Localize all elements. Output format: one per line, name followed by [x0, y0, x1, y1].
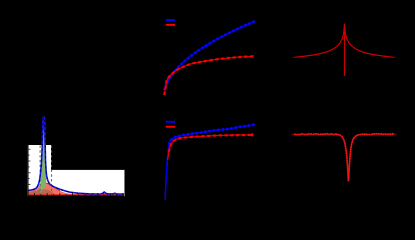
- blue peak apex blob: [42, 117, 45, 120]
- middle-bottom red end marker: [250, 133, 253, 136]
- right-top tail fade left: [292, 56, 295, 58]
- darker overlap region fill: [28, 189, 124, 196]
- blue spectral curve: [28, 117, 124, 194]
- bottom spine: [27, 195, 125, 197]
- middle-top red curve markers: [164, 56, 254, 96]
- right spine: [124, 170, 126, 196]
- middle-bottom red curve line: [168, 135, 253, 160]
- dashed vertical line left: [39, 146, 41, 196]
- legend bottom red sample: [166, 126, 175, 128]
- right-top cusp curve: [295, 24, 393, 58]
- red curve edge line: [40, 183, 61, 191]
- middle-bottom red curve initial segment: [165, 152, 169, 200]
- left axes white patch wide lower part: [27, 170, 124, 197]
- red fill under incoherent curve: [28, 183, 124, 196]
- right-top tail fade right: [393, 56, 396, 58]
- bright red strip (red curve near zero): [28, 193, 124, 196]
- right-bottom dip curve line: [294, 134, 394, 181]
- black dashed overlay curve: [28, 117, 124, 194]
- green quasiparticle fill: [40, 117, 46, 193]
- legend top blue sample: [166, 19, 175, 21]
- middle-top blue curve markers: [164, 21, 255, 90]
- right-bottom tail fade left: [291, 133, 294, 135]
- right-top vertical line below apex: [344, 24, 346, 77]
- left spine: [27, 145, 29, 196]
- right-bottom tail fade right: [394, 133, 397, 135]
- dashed vertical line right: [51, 146, 53, 196]
- middle-top red curve line: [164, 56, 254, 96]
- legend top red sample: [166, 24, 175, 26]
- middle-bottom blue curve markers: [169, 124, 255, 144]
- middle-bottom red curve markers: [169, 135, 253, 152]
- left axes white patch tall part: [27, 145, 51, 196]
- y ticks: [28, 149, 30, 190]
- middle-bottom blue curve line: [165, 124, 255, 200]
- right-bottom dip curve speckle: [294, 134, 394, 181]
- blue peak thick segment: [43, 117, 45, 134]
- middle-top blue curve line: [164, 21, 255, 90]
- x ticks: [35, 193, 123, 196]
- legend bottom blue sample: [166, 121, 175, 123]
